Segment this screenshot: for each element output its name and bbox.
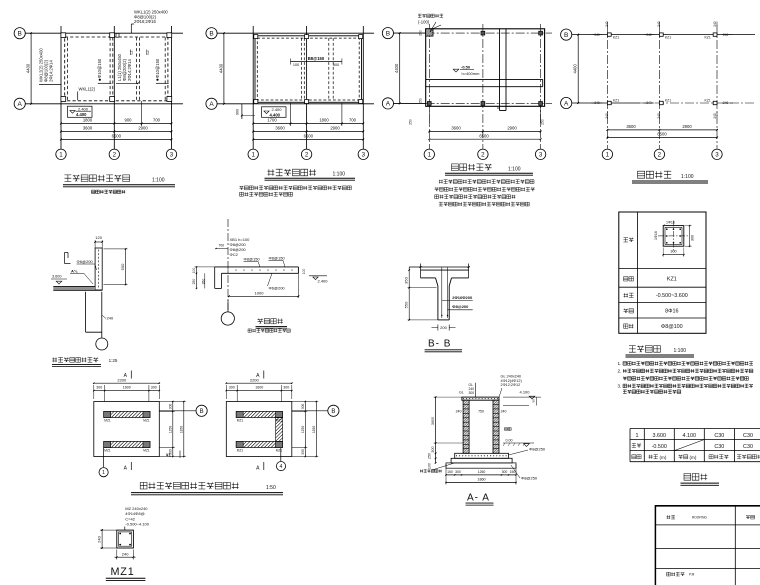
svg-text:2: 2 — [481, 152, 485, 159]
svg-text:MZ1: MZ1 — [237, 419, 244, 423]
svg-text:550: 550 — [404, 301, 409, 308]
svg-text:2Φ16Φ200: 2Φ16Φ200 — [452, 295, 473, 300]
svg-text:MZ1: MZ1 — [104, 419, 111, 423]
svg-text:2900: 2900 — [507, 126, 517, 131]
svg-text:240: 240 — [501, 410, 507, 414]
svg-text:150: 150 — [510, 470, 516, 474]
svg-text:240: 240 — [723, 101, 729, 105]
svg-text:240: 240 — [594, 33, 600, 37]
svg-text:1800: 1800 — [319, 118, 329, 123]
svg-text:A: A — [18, 101, 23, 108]
svg-text:C30: C30 — [714, 444, 724, 450]
svg-text:0.00: 0.00 — [506, 439, 513, 443]
svg-text:1: 1 — [636, 433, 639, 439]
svg-text:240: 240 — [107, 316, 114, 321]
svg-text:WKL1(2): WKL1(2) — [79, 87, 96, 92]
svg-text:4: 4 — [280, 464, 283, 470]
svg-text:KZ1: KZ1 — [665, 99, 671, 103]
svg-text:300: 300 — [96, 386, 102, 390]
svg-text:1:100: 1:100 — [152, 178, 165, 184]
svg-text:100: 100 — [428, 463, 432, 469]
svg-text:2: 2 — [658, 152, 662, 159]
svg-text:1250: 1250 — [301, 426, 305, 434]
svg-text:Φ8@200: Φ8@200 — [452, 304, 469, 309]
svg-text:2200: 2200 — [117, 377, 127, 382]
svg-text:240: 240 — [594, 101, 600, 105]
svg-text:¥1: ¥1 — [166, 453, 171, 458]
svg-text:250: 250 — [428, 453, 432, 459]
svg-text:2Φ14;2Φ14: 2Φ14;2Φ14 — [127, 59, 132, 81]
svg-text:B: B — [331, 409, 335, 415]
svg-text:300: 300 — [301, 449, 305, 455]
svg-text:A: A — [386, 101, 391, 108]
svg-text:KZ1: KZ1 — [705, 35, 711, 39]
svg-text:A¼: A¼ — [71, 269, 78, 274]
svg-text:2.400: 2.400 — [272, 107, 283, 112]
svg-text:4.400: 4.400 — [270, 112, 281, 117]
svg-text:3.: 3. — [618, 384, 622, 389]
svg-text:300: 300 — [283, 386, 289, 390]
svg-text:50: 50 — [532, 399, 536, 403]
svg-text:2900: 2900 — [138, 126, 148, 131]
svg-text:2: 2 — [305, 152, 309, 159]
svg-text:350: 350 — [404, 276, 409, 283]
svg-text:KZ1: KZ1 — [665, 35, 671, 39]
svg-text:3: 3 — [539, 152, 543, 159]
svg-text:1: 1 — [606, 152, 610, 159]
svg-text:3: 3 — [715, 152, 719, 159]
svg-text:2Φ16;2Φ16: 2Φ16;2Φ16 — [134, 19, 156, 24]
svg-text:300: 300 — [502, 470, 508, 474]
svg-text:900: 900 — [235, 109, 239, 115]
svg-text:Φ8@250: Φ8@250 — [529, 447, 546, 452]
svg-text:300: 300 — [168, 404, 172, 410]
svg-text:L2: L2 — [130, 51, 134, 55]
svg-text:4400: 4400 — [26, 63, 31, 73]
svg-text:750: 750 — [478, 410, 484, 414]
svg-text:1: 1 — [59, 152, 63, 159]
svg-text:4400: 4400 — [394, 63, 399, 73]
svg-text:MZ1: MZ1 — [276, 449, 283, 453]
svg-text:KZ1: KZ1 — [667, 277, 677, 283]
svg-text:250: 250 — [419, 98, 423, 104]
svg-text:MZ1: MZ1 — [104, 449, 111, 453]
svg-text:L2: L2 — [146, 51, 150, 55]
svg-text:300: 300 — [469, 391, 475, 395]
svg-text:2.: 2. — [618, 369, 622, 374]
svg-text:C30: C30 — [743, 444, 753, 450]
svg-text:1860: 1860 — [477, 478, 485, 482]
svg-text:250: 250 — [409, 119, 413, 125]
svg-text:h=400mm: h=400mm — [462, 71, 481, 76]
svg-text:240: 240 — [713, 21, 717, 27]
svg-text:500: 500 — [333, 63, 339, 67]
svg-text:B: B — [200, 409, 204, 415]
svg-text:3600: 3600 — [275, 126, 285, 131]
svg-text:3: 3 — [362, 152, 366, 159]
svg-text:1: 1 — [102, 470, 105, 476]
svg-text:4.100: 4.100 — [683, 433, 697, 439]
svg-text:2Φ14;2Φ14: 2Φ14;2Φ14 — [49, 60, 54, 82]
svg-text:-0.500: -0.500 — [652, 444, 667, 450]
svg-text:1850: 1850 — [179, 426, 183, 434]
svg-text:-0.50: -0.50 — [461, 65, 471, 70]
svg-text:GL: GL — [459, 391, 464, 395]
svg-text:240: 240 — [723, 33, 729, 37]
svg-text:1600: 1600 — [123, 386, 131, 390]
svg-text:700: 700 — [349, 118, 357, 123]
svg-text:KZ1: KZ1 — [613, 99, 619, 103]
svg-text:3600: 3600 — [626, 124, 636, 129]
svg-text:1Φ16: 1Φ16 — [654, 231, 658, 240]
svg-text:240: 240 — [122, 552, 129, 557]
svg-text:1:100: 1:100 — [508, 167, 521, 173]
svg-text:240: 240 — [646, 33, 652, 37]
svg-text:B: B — [209, 31, 213, 38]
svg-text:240: 240 — [96, 535, 101, 542]
svg-text:300: 300 — [691, 235, 695, 241]
svg-text:300: 300 — [229, 386, 235, 390]
svg-text:MZ1: MZ1 — [143, 449, 150, 453]
svg-text:A: A — [209, 101, 214, 108]
svg-text:B: B — [18, 31, 22, 38]
svg-text:-0.500~3.600: -0.500~3.600 — [656, 293, 688, 299]
svg-text:4.100: 4.100 — [520, 390, 531, 395]
svg-text:B: B — [564, 32, 568, 39]
svg-text:1800: 1800 — [83, 118, 93, 123]
svg-text:1: 1 — [251, 152, 255, 159]
svg-text:100: 100 — [192, 268, 196, 274]
svg-text:KZ1: KZ1 — [613, 35, 619, 39]
svg-text:200: 200 — [440, 325, 447, 330]
svg-text:2Φ12;2Φ12: 2Φ12;2Φ12 — [501, 383, 521, 387]
svg-text:ROOFING: ROOFING — [692, 516, 707, 520]
svg-text:Φ6@200: Φ6@200 — [77, 259, 94, 264]
svg-text:100: 100 — [293, 63, 299, 67]
svg-text:C30: C30 — [714, 433, 724, 439]
svg-text:1:50: 1:50 — [266, 485, 276, 491]
svg-text:500: 500 — [120, 263, 125, 270]
svg-text:250: 250 — [419, 30, 423, 36]
svg-text:250: 250 — [192, 279, 196, 285]
svg-text:2200: 2200 — [250, 377, 260, 382]
svg-text:700: 700 — [219, 244, 225, 248]
svg-text:KZ1: KZ1 — [705, 99, 711, 103]
svg-text:1000: 1000 — [255, 290, 265, 295]
svg-text:8Φ16: 8Φ16 — [665, 309, 678, 315]
svg-text:6500: 6500 — [304, 134, 314, 139]
svg-text:2.400: 2.400 — [318, 279, 329, 284]
svg-text:C30: C30 — [743, 433, 753, 439]
svg-text:300: 300 — [455, 470, 461, 474]
svg-text:6500: 6500 — [112, 134, 122, 139]
svg-text:3600: 3600 — [83, 126, 93, 131]
svg-text:(-100): (-100) — [418, 20, 430, 25]
svg-text:1Φ16: 1Φ16 — [666, 220, 675, 224]
svg-text:1250: 1250 — [168, 426, 172, 434]
svg-text:1:25: 1:25 — [109, 358, 118, 363]
svg-text:100: 100 — [302, 269, 306, 275]
svg-text:1: 1 — [428, 152, 432, 159]
svg-text:A- A: A- A — [467, 493, 490, 504]
svg-text:1:100: 1:100 — [681, 174, 694, 180]
svg-text:120: 120 — [95, 235, 102, 240]
svg-text:150: 150 — [447, 470, 453, 474]
svg-text:700: 700 — [153, 118, 161, 123]
svg-text:(m): (m) — [660, 455, 667, 460]
svg-text:3: 3 — [170, 152, 174, 159]
svg-text:900: 900 — [125, 118, 133, 123]
svg-text:MZ1: MZ1 — [237, 449, 244, 453]
svg-text:240: 240 — [456, 410, 462, 414]
svg-text:1:100: 1:100 — [333, 172, 346, 178]
svg-text:Φ8@250: Φ8@250 — [521, 476, 538, 481]
svg-text:3600: 3600 — [431, 417, 435, 425]
svg-text:3600: 3600 — [451, 126, 461, 131]
svg-text:B8@150: B8@150 — [308, 56, 325, 61]
svg-text:240: 240 — [646, 101, 652, 105]
svg-text:240: 240 — [713, 113, 717, 119]
svg-text:-0.500~4.100: -0.500~4.100 — [125, 522, 149, 527]
svg-text:Φ10@150: Φ10@150 — [155, 58, 160, 78]
svg-text:1.: 1. — [618, 361, 622, 366]
svg-text:4400: 4400 — [218, 63, 223, 73]
svg-text:2900: 2900 — [682, 124, 692, 129]
svg-text:1850: 1850 — [312, 426, 316, 434]
svg-text:300: 300 — [301, 404, 305, 410]
svg-text:ΦC2: ΦC2 — [230, 252, 239, 257]
svg-text:B- B: B- B — [428, 339, 451, 350]
svg-text:MZ1: MZ1 — [111, 566, 135, 578]
svg-text:4.400: 4.400 — [76, 112, 87, 117]
svg-text:1:100: 1:100 — [674, 348, 687, 354]
svg-text:A: A — [564, 100, 569, 107]
svg-text:250: 250 — [541, 119, 545, 125]
svg-text:P.M: P.M — [689, 573, 695, 577]
svg-text:1600: 1600 — [255, 386, 263, 390]
svg-text:Φ8@100: Φ8@100 — [661, 324, 683, 330]
svg-text:2.400: 2.400 — [78, 106, 89, 111]
svg-text:3.600: 3.600 — [653, 433, 667, 439]
svg-text:1700: 1700 — [267, 118, 277, 123]
svg-text:2900: 2900 — [330, 126, 340, 131]
svg-text:3.600: 3.600 — [52, 275, 62, 279]
svg-text:300: 300 — [151, 386, 157, 390]
svg-text:Φ10@150: Φ10@150 — [97, 58, 102, 78]
svg-text:4400: 4400 — [573, 63, 578, 73]
svg-text:B: B — [386, 30, 390, 37]
svg-text:Φ6@200: Φ6@200 — [269, 286, 286, 291]
svg-text:300: 300 — [431, 446, 435, 452]
svg-text:Φ8@150: Φ8@150 — [269, 256, 286, 261]
svg-text:1260: 1260 — [478, 470, 486, 474]
svg-text:(m): (m) — [690, 455, 697, 460]
svg-text:6500: 6500 — [479, 133, 489, 138]
svg-text:6500: 6500 — [657, 132, 667, 137]
svg-text:300: 300 — [670, 249, 676, 253]
svg-text:2: 2 — [113, 152, 117, 159]
svg-text:MZ1: MZ1 — [143, 419, 150, 423]
svg-text:Φ8@150: Φ8@150 — [244, 257, 261, 262]
